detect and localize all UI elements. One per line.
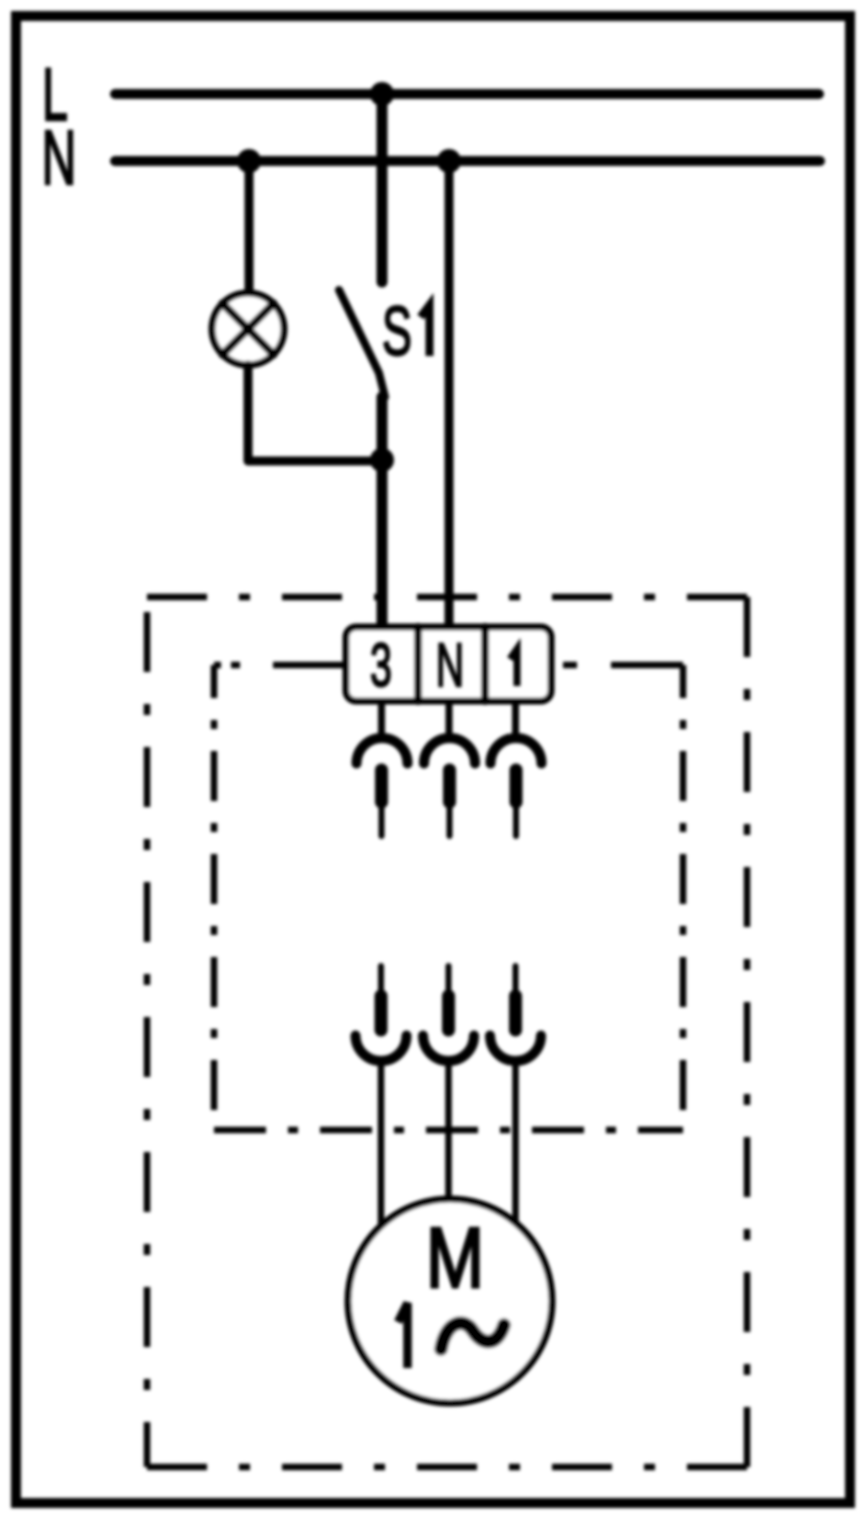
- svg-text:N: N: [42, 114, 76, 201]
- label terminal 1: [510, 649, 517, 686]
- connector pin lower 1: [375, 996, 388, 1030]
- node junction switch/lamp: [370, 448, 394, 472]
- terminal block X1: [346, 627, 551, 701]
- motor tilde symbol: [441, 1323, 504, 1349]
- wire L bus: [115, 89, 819, 99]
- wire stub terminal 1: [512, 701, 519, 736]
- connector socket upper 3: [491, 738, 542, 764]
- enclosure inner dash-dot box: [214, 665, 683, 1130]
- svg-text:N: N: [436, 631, 464, 699]
- enclosure outer dash-dot box: [147, 597, 747, 1467]
- lamp E1: [212, 293, 284, 365]
- wire tail upper 1: [379, 802, 385, 836]
- wire tail lower 2: [446, 966, 452, 998]
- wire switch to terminal 3: [377, 397, 388, 629]
- wire stub terminal N: [446, 701, 453, 736]
- connector pin lower 2: [442, 996, 455, 1030]
- node junction N/branch: [437, 149, 461, 173]
- switch S1 blade: [339, 290, 385, 397]
- connector socket lower 1: [356, 1036, 407, 1062]
- svg-text:3: 3: [370, 631, 392, 699]
- wire N branch to terminal N: [445, 161, 454, 629]
- connector pin upper 3: [510, 770, 523, 802]
- wire lamp branch from N: [245, 161, 254, 296]
- wire motor lead 1: [378, 1062, 385, 1227]
- wire L to switch: [377, 94, 388, 282]
- connector socket upper 2: [424, 738, 475, 764]
- connector pin upper 2: [443, 770, 456, 802]
- connector socket upper 1: [357, 738, 408, 764]
- wire motor lead 2: [445, 1062, 452, 1201]
- wire lamp to corner: [248, 365, 378, 461]
- label motor phase 1: [398, 1303, 408, 1368]
- connector socket lower 2: [423, 1036, 474, 1062]
- wire stub terminal 3: [378, 701, 385, 736]
- connector socket lower 3: [490, 1036, 541, 1062]
- node junction L/S1: [370, 82, 394, 106]
- wire tail lower 1: [378, 966, 384, 998]
- connector pin lower 3: [509, 996, 522, 1030]
- wire motor lead 3: [512, 1062, 519, 1223]
- wire tail lower 3: [513, 966, 519, 998]
- wire N bus: [115, 156, 820, 166]
- wire tail upper 2: [447, 802, 453, 836]
- wire tail upper 3: [513, 802, 519, 836]
- motor M1: [348, 1199, 552, 1403]
- svg-text:M: M: [426, 1212, 484, 1306]
- connector pin upper 1: [375, 770, 388, 802]
- node junction N/lamp: [237, 149, 261, 173]
- svg-text:S: S: [382, 293, 412, 370]
